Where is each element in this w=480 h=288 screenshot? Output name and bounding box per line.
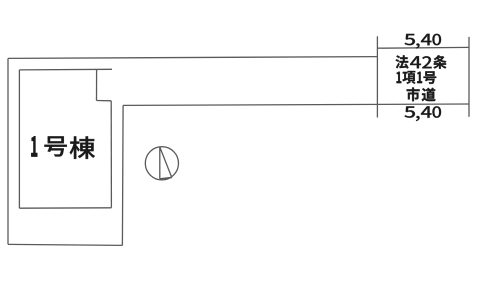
parcel top boundary wire <box>8 57 377 59</box>
road law label line1 法42条 <box>396 55 447 68</box>
road width dimension text 5,40 bottom <box>404 106 441 121</box>
dimension extension tick left <box>376 36 378 117</box>
parcel inner right boundary wire <box>121 105 124 245</box>
north symbol circle <box>145 147 178 180</box>
dimension line top (road width) <box>377 46 469 49</box>
road law label line2 1項1号 <box>397 71 437 84</box>
parcel bottom boundary wire <box>8 244 122 245</box>
dimension extension tick right <box>468 37 470 117</box>
road south edge wire <box>123 104 469 105</box>
building 1号棟 outline <box>19 69 112 208</box>
road type label 市道 <box>407 87 436 101</box>
building label text 1号棟 <box>31 136 95 159</box>
north symbol needle <box>160 147 172 179</box>
parcel left boundary wire <box>7 58 9 244</box>
road width dimension text 5,40 top <box>404 34 441 49</box>
